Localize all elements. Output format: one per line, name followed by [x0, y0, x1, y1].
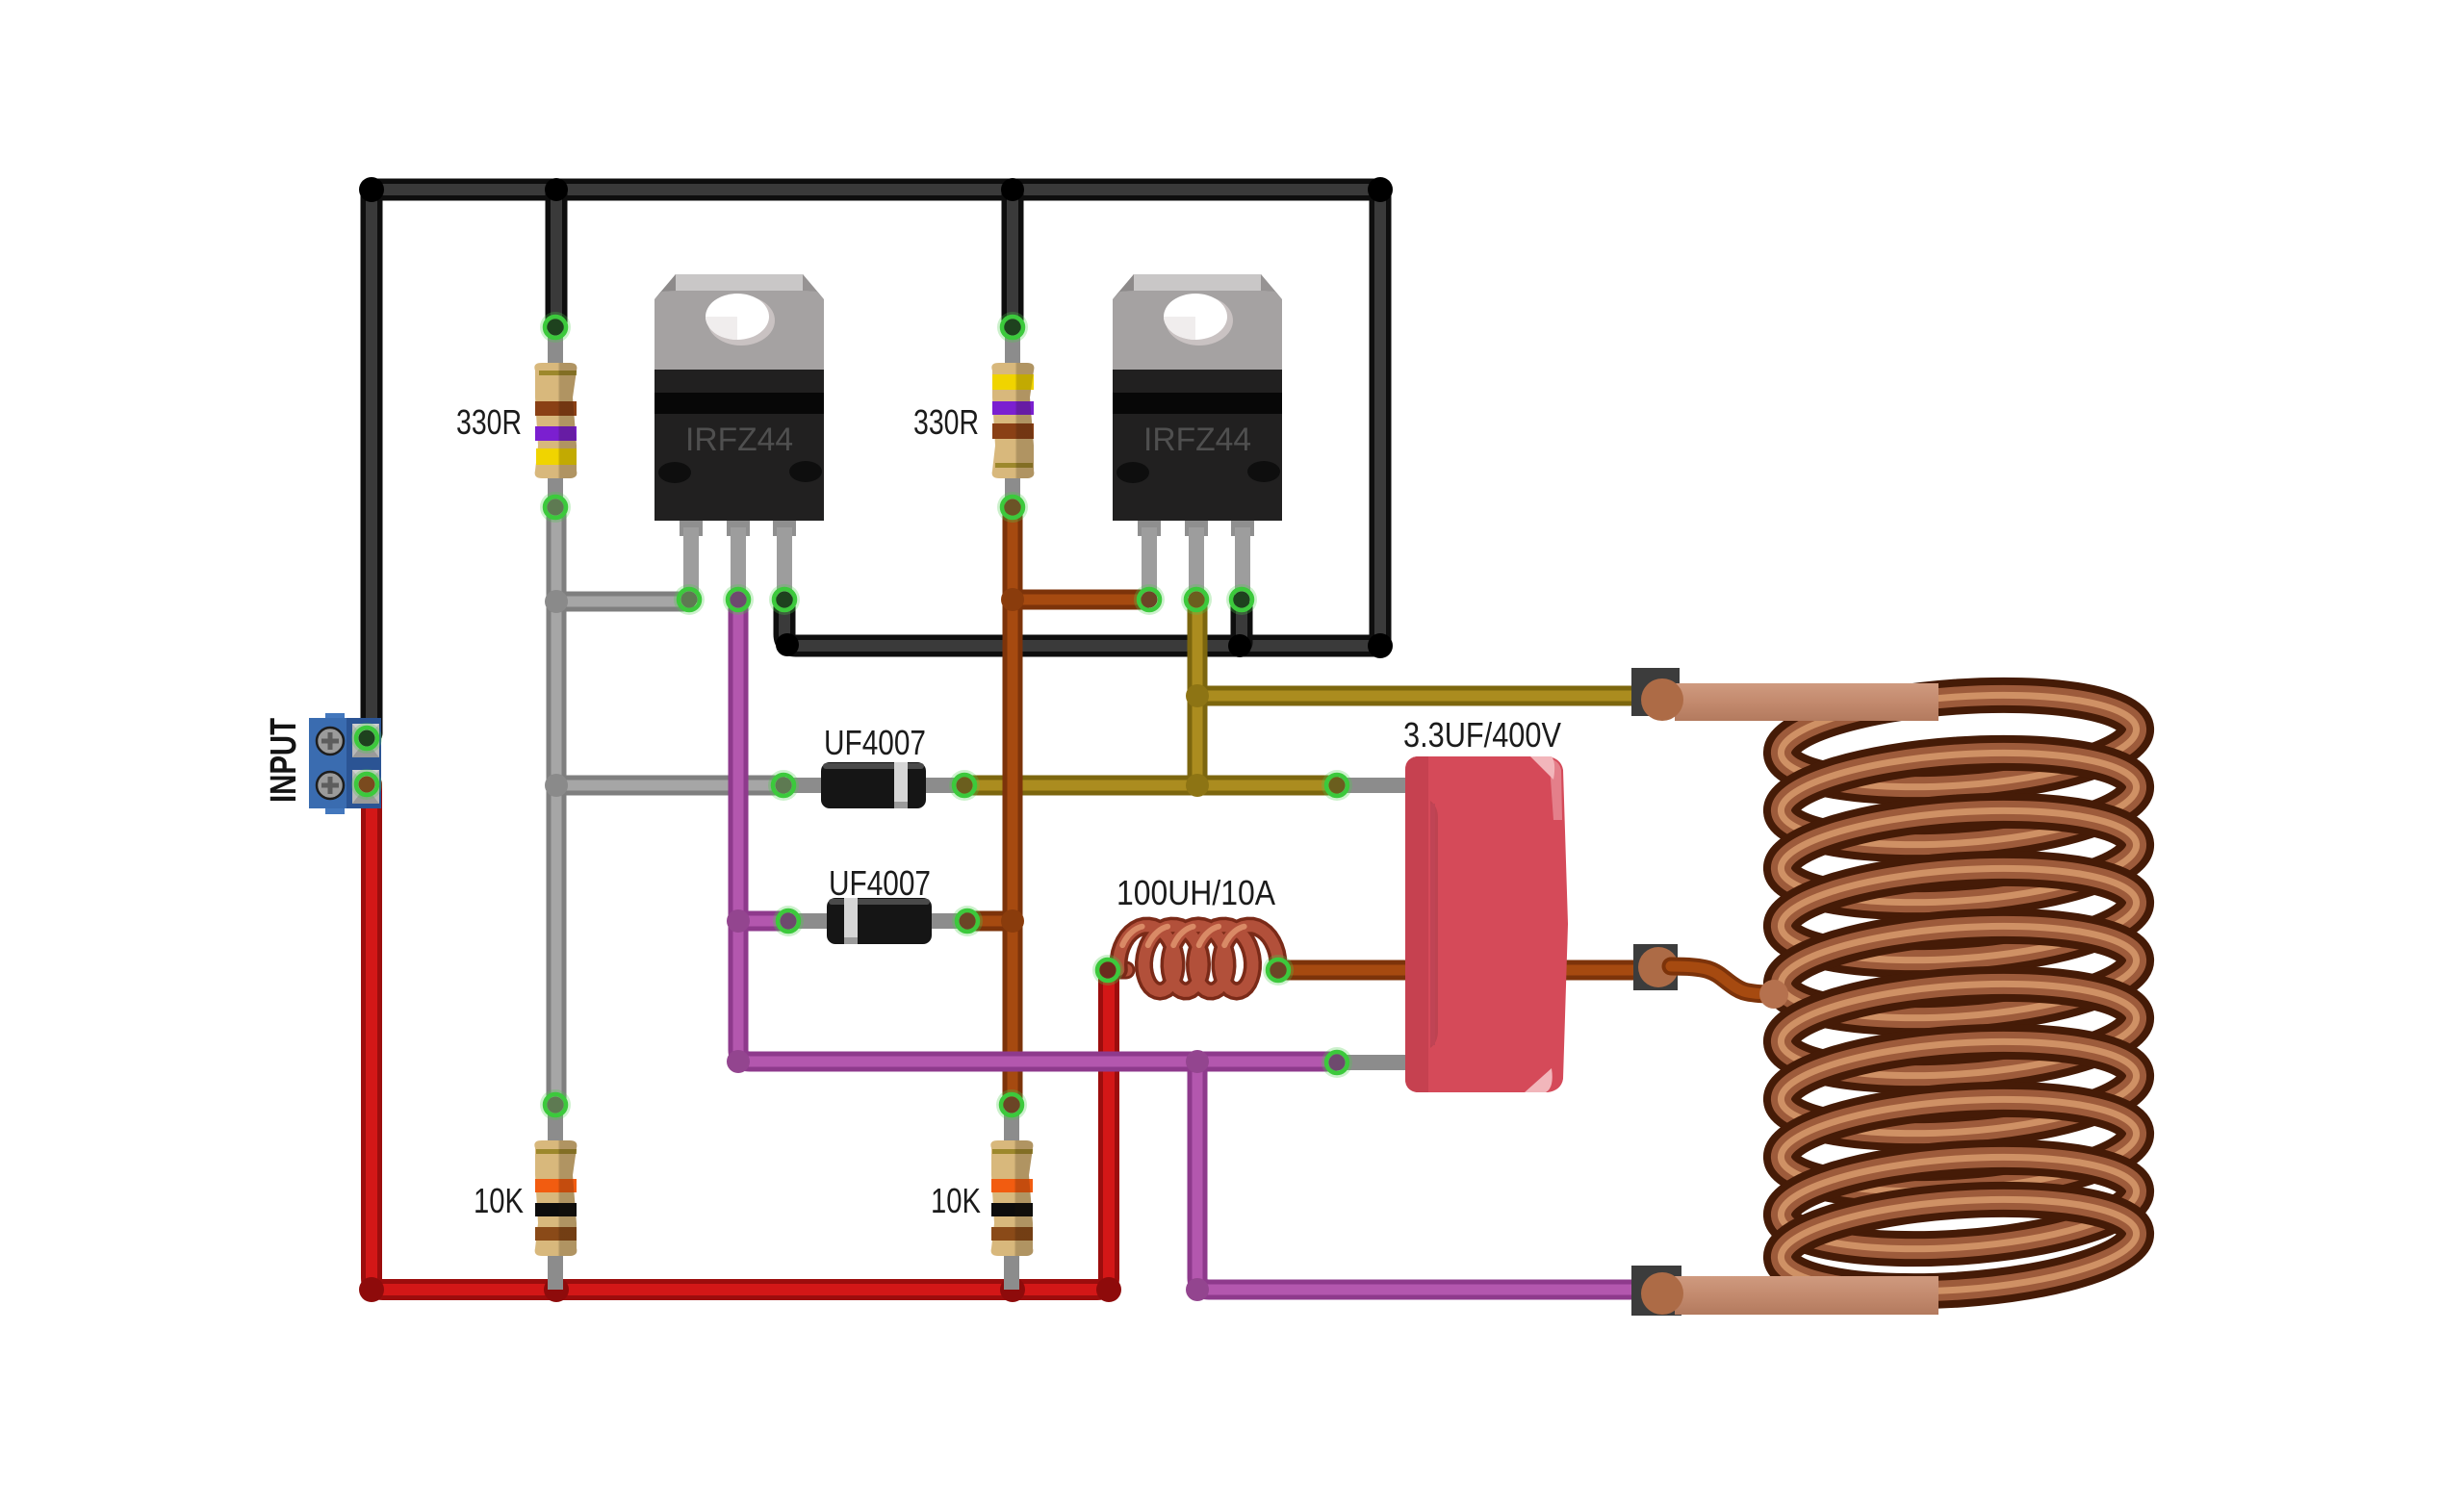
svg-text:UF4007: UF4007	[824, 723, 926, 762]
node D1 cathode	[949, 770, 980, 801]
wire brown Q2 gate vertical R2-R4	[1003, 507, 1023, 1105]
node R1 top	[540, 312, 571, 343]
junction purple dots	[727, 909, 1209, 1301]
coil tap solder dot	[1759, 980, 1788, 1009]
wire purple branch to D2 anode	[738, 911, 784, 932]
wire black drop to R2	[1002, 190, 1024, 323]
node L1 left	[1092, 955, 1123, 985]
node Q2 gate pin	[1134, 584, 1165, 615]
svg-text:10K: 10K	[931, 1181, 981, 1220]
node C1 top lead	[1322, 770, 1352, 801]
work coil terminal squares	[1631, 668, 1681, 1316]
wire purple down to coil bottom	[1197, 1062, 1654, 1290]
svg-text:330R: 330R	[456, 402, 522, 442]
wire olive D1 cathode to C1	[966, 776, 1333, 796]
junction gray dots	[545, 590, 568, 797]
svg-text:IRFZ44: IRFZ44	[685, 422, 793, 458]
wire brown center tap curve	[1671, 966, 1767, 994]
wire black positive rail top	[372, 179, 1380, 201]
node R1 bottom	[540, 492, 571, 523]
resistor R3 10K	[534, 1105, 577, 1290]
node D2 cathode	[952, 906, 983, 936]
svg-text:330R: 330R	[913, 402, 979, 442]
wire black drop to R1	[546, 190, 568, 323]
inductor L1 100UH/10A	[1109, 926, 1278, 991]
transistor Q1 IRFZ44	[654, 274, 824, 602]
work coil terminal circles	[1638, 678, 1683, 1315]
diode D1 UF4007	[783, 762, 964, 808]
node Q1 gate pin	[674, 584, 705, 615]
wire purple Q1 drain vertical	[738, 602, 1333, 1062]
wire brown D2 cathode stub	[970, 911, 1013, 932]
input terminal block J1	[309, 713, 381, 814]
node R3 top	[540, 1089, 571, 1120]
svg-text:IRFZ44: IRFZ44	[1143, 422, 1251, 458]
node R2 top	[997, 312, 1028, 343]
node L1 right	[1263, 955, 1294, 985]
work coil bottom tube	[1675, 1276, 1938, 1315]
capacitor C1 3.3UF/400V leads	[1337, 785, 1410, 1062]
work coil top tube	[1675, 683, 1938, 721]
wire red V+ from INPUT down and along bottom	[372, 784, 1109, 1290]
capacitor C1 3.3UF/400V body	[1405, 756, 1568, 1092]
wire gray to D1 anode	[556, 776, 780, 796]
node R2 bottom	[997, 492, 1028, 523]
wire gray to Q1 drain pin	[556, 592, 685, 612]
svg-text:INPUT: INPUT	[264, 718, 304, 803]
wire brown to Q2 gate pin	[1013, 590, 1143, 610]
node D2 anode	[773, 906, 804, 936]
node INPUT top	[351, 723, 382, 754]
wire black left vertical to INPUT	[361, 190, 383, 733]
node D1 anode	[768, 770, 799, 801]
node Q1 drain pin	[723, 584, 754, 615]
junction black corners	[359, 177, 1393, 658]
svg-text:UF4007: UF4007	[829, 863, 931, 903]
junction olive dots	[1186, 684, 1209, 797]
resistor R2 330R	[991, 327, 1034, 507]
wire olive to coil top	[1197, 686, 1650, 706]
wire black sources bottom horizontal	[784, 602, 1380, 646]
diode D2 UF4007	[788, 898, 970, 944]
node Q2 source pin	[1226, 584, 1257, 615]
node Q2 drain pin	[1181, 584, 1212, 615]
transistor Q2 IRFZ44	[1113, 274, 1282, 602]
junction brown dots	[1001, 588, 1024, 933]
wire olive Q2 gate-drain vertical	[1188, 602, 1208, 785]
resistor R1 330R	[534, 327, 577, 507]
work coil L2 copper loops	[1778, 684, 2140, 1302]
wire gray gate bus Q1 vertical	[547, 507, 567, 1105]
svg-text:3.3UF/400V: 3.3UF/400V	[1403, 715, 1561, 755]
node Q1 source pin	[769, 584, 800, 615]
node R4 top	[996, 1089, 1027, 1120]
resistor R4 10K	[990, 1105, 1033, 1290]
node INPUT bottom	[351, 769, 382, 800]
wire black right vertical	[1370, 190, 1392, 646]
svg-text:100UH/10A: 100UH/10A	[1116, 873, 1275, 912]
svg-text:10K: 10K	[474, 1181, 524, 1220]
wire black Q2 source stub	[1231, 602, 1253, 643]
node C1 bottom lead	[1322, 1047, 1352, 1078]
wire brown L1 to coil center tap (behind C1)	[1278, 960, 1636, 981]
junction red dots	[359, 1277, 1121, 1302]
